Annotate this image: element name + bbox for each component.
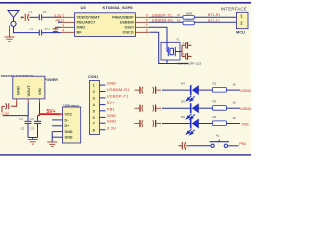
svg-text:GND: GND: [107, 113, 117, 118]
svg-text:OSCO: OSCO: [123, 31, 134, 35]
svg-text:VCC: VCC: [65, 112, 73, 116]
svg-text:D6: D6: [181, 115, 185, 119]
svg-text:1K: 1K: [232, 101, 236, 105]
svg-text:3.3V: 3.3V: [107, 125, 116, 130]
svg-text:R1: R1: [177, 13, 181, 17]
svg-text:1K: 1K: [232, 116, 236, 120]
svg-text:USBDP-T1: USBDP-T1: [107, 93, 129, 98]
svg-text:GND: GND: [15, 86, 20, 95]
svg-text:VIN: VIN: [37, 88, 42, 95]
svg-text:C4: C4: [29, 10, 33, 14]
svg-text:USBDP-T1: USBDP-T1: [152, 13, 172, 17]
svg-text:2: 2: [62, 19, 64, 23]
svg-text:D5: D5: [181, 100, 185, 104]
svg-text:CON1: CON1: [88, 75, 98, 79]
svg-text:104: 104: [19, 117, 24, 121]
svg-text:K1: K1: [216, 134, 220, 138]
svg-text:USBDM: USBDM: [240, 89, 251, 93]
svg-text:D4: D4: [181, 82, 185, 86]
svg-text:INTERFACE: INTERFACE: [221, 7, 247, 12]
svg-text:GND: GND: [77, 26, 86, 30]
svg-text:VDDIO/VBAT: VDDIO/VBAT: [77, 16, 101, 20]
svg-text:POWER: POWER: [44, 78, 58, 82]
svg-text:1: 1: [62, 14, 64, 18]
svg-text:BT1-T1: BT1-T1: [208, 19, 220, 23]
svg-text:160R: 160R: [186, 19, 192, 22]
svg-text:R4: R4: [213, 115, 217, 119]
svg-text:RF: RF: [77, 31, 83, 35]
svg-text:106: 106: [30, 117, 35, 121]
svg-text:PB1: PB1: [239, 142, 246, 146]
svg-text:8: 8: [146, 29, 148, 33]
svg-text:7: 7: [93, 121, 95, 126]
svg-text:PA6/USBDP: PA6/USBDP: [112, 16, 134, 20]
svg-text:16MHZ-12PF-1123: 16MHZ-12PF-1123: [178, 61, 202, 65]
svg-text:C1: C1: [30, 27, 34, 31]
svg-text:GND: GND: [107, 119, 117, 124]
svg-text:Y1: Y1: [176, 38, 180, 42]
svg-text:R3: R3: [213, 100, 217, 104]
svg-text:5V+: 5V+: [107, 100, 115, 105]
svg-text:USBDP: USBDP: [240, 107, 251, 111]
svg-text:PB1: PB1: [107, 106, 116, 111]
svg-text:D+: D+: [65, 124, 70, 128]
svg-text:4: 4: [62, 29, 64, 33]
svg-text:R2: R2: [177, 18, 181, 22]
svg-text:USBDM-R1: USBDM-R1: [107, 87, 130, 92]
svg-text:5: 5: [146, 14, 148, 18]
svg-text:U3: U3: [81, 5, 87, 10]
svg-text:USBDM: USBDM: [120, 21, 134, 25]
svg-text:ZP1: ZP1: [45, 27, 51, 31]
svg-text:GND: GND: [107, 81, 117, 86]
svg-text:C2: C2: [21, 127, 25, 131]
svg-text:KT6368A_SOP8: KT6368A_SOP8: [103, 5, 134, 10]
svg-text:PB1: PB1: [56, 19, 63, 23]
svg-text:USBDM-R1: USBDM-R1: [152, 18, 173, 22]
svg-text:OSCI: OSCI: [124, 26, 133, 30]
svg-text:GND: GND: [65, 136, 73, 140]
svg-text:5V+: 5V+: [47, 109, 56, 115]
svg-text:PB1: PB1: [242, 122, 249, 126]
svg-text:BT1-R1: BT1-R1: [208, 13, 220, 17]
svg-text:MCU: MCU: [236, 30, 245, 35]
svg-text:6: 6: [146, 19, 148, 23]
svg-text:C3: C3: [31, 127, 35, 131]
svg-text:VOUT: VOUT: [26, 85, 31, 97]
svg-text:PB1/ADC7: PB1/ADC7: [77, 21, 96, 25]
svg-text:160R: 160R: [186, 11, 193, 15]
svg-text:GND: GND: [65, 130, 73, 134]
svg-text:B5: B5: [43, 10, 47, 14]
svg-text:R2: R2: [213, 82, 217, 86]
svg-text:1K: 1K: [232, 83, 236, 87]
svg-text:7: 7: [146, 24, 148, 28]
svg-text:3.3V: 3.3V: [54, 14, 62, 18]
svg-text:3: 3: [62, 24, 64, 28]
